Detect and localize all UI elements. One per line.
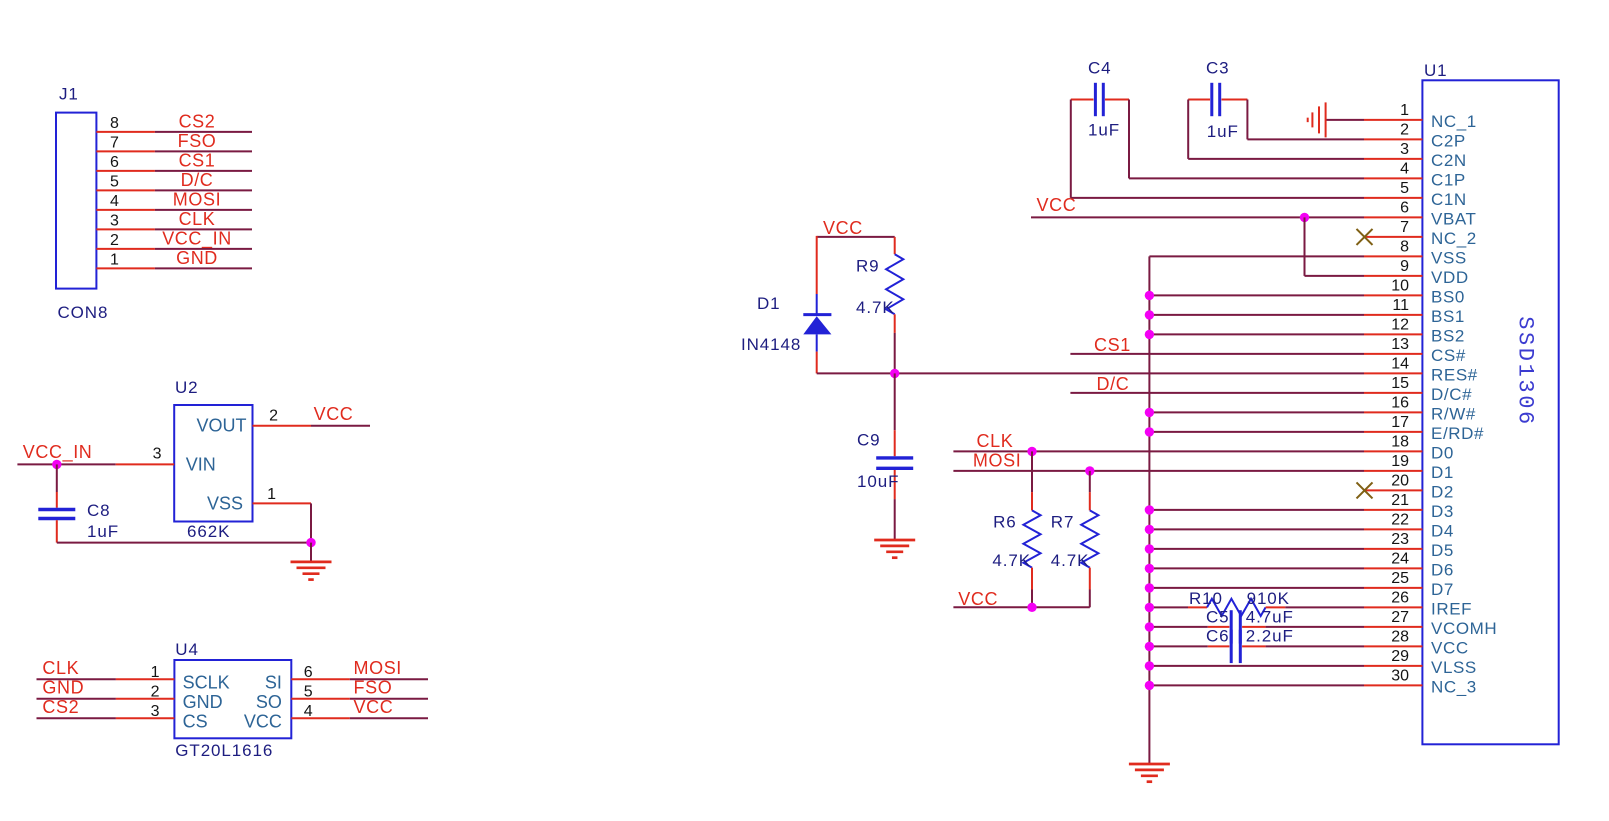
wire C4 right leg to C1P [1129,100,1364,179]
pin 28 stub [1364,645,1422,647]
svg-text:VCC: VCC [1037,195,1077,215]
svg-text:15: 15 [1391,375,1409,392]
wire bus to pin 30 [1149,684,1364,686]
capacitor C6 on VCC [1149,645,1229,647]
svg-text:C2N: C2N [1431,151,1467,170]
wire bus to pin 11 [1149,314,1364,316]
svg-text:U2: U2 [175,378,199,397]
svg-text:5: 5 [304,683,313,700]
diode D1 [803,236,831,374]
svg-text:16: 16 [1391,394,1409,411]
svg-text:BS1: BS1 [1431,307,1465,326]
svg-text:C1P: C1P [1431,170,1466,189]
svg-text:8: 8 [1400,238,1409,255]
svg-text:22: 22 [1391,511,1409,528]
wire NC_1 to earth [1326,119,1364,121]
svg-text:1: 1 [1400,102,1409,119]
svg-text:CLK: CLK [977,431,1014,451]
wire U4 pin 1 [37,678,175,680]
svg-text:2: 2 [151,683,160,700]
junction VBAT VDD [1300,213,1309,222]
svg-text:C8: C8 [87,501,111,520]
svg-text:6: 6 [1400,199,1409,216]
svg-text:J1: J1 [59,85,79,104]
wire MOSI / D1 net [953,470,1364,472]
wire CLK / D0 net [953,450,1364,452]
svg-text:7: 7 [1400,219,1409,236]
pin 23 stub [1364,548,1422,550]
svg-text:3: 3 [151,703,160,720]
svg-text:R7: R7 [1051,512,1075,531]
svg-text:BS2: BS2 [1431,326,1465,345]
wire VCC top rail [817,236,895,238]
svg-text:9: 9 [1400,258,1409,275]
svg-text:25: 25 [1391,570,1409,587]
svg-text:10uF: 10uF [857,472,899,491]
svg-text:20: 20 [1391,472,1409,489]
svg-text:IN4148: IN4148 [741,335,801,354]
wire C4 left leg to C1N [1071,100,1364,198]
wire U2 pin 1 VSS [253,503,312,542]
pin 30 stub [1364,684,1422,686]
svg-text:VOUT: VOUT [197,416,247,436]
svg-text:NC_1: NC_1 [1431,112,1477,131]
svg-text:NC_2: NC_2 [1431,229,1477,248]
svg-text:SI: SI [265,673,282,693]
pin 8 stub [1364,255,1422,257]
svg-text:GT20L1616: GT20L1616 [175,741,273,760]
svg-text:6: 6 [110,154,119,171]
wire VSS bus vertical [1148,256,1150,764]
no-connect X pin 7 [1357,229,1373,245]
svg-text:C9: C9 [857,431,881,450]
svg-text:2: 2 [1400,121,1409,138]
svg-text:VDD: VDD [1431,268,1469,287]
junction bus pin 30 [1145,681,1154,690]
junction bus VCC pin28 [1145,642,1154,651]
capacitor C4 [1071,99,1129,101]
pin 22 stub [1364,528,1422,530]
svg-text:910K: 910K [1247,589,1290,608]
wire VCC pullup rail [953,606,1089,608]
svg-text:12: 12 [1391,316,1409,333]
wire bus to pin 24 [1149,567,1364,569]
svg-text:D6: D6 [1431,560,1454,579]
svg-text:C1N: C1N [1431,190,1467,209]
pin 17 stub [1364,431,1422,433]
wire U4 pin 3 [37,717,175,719]
junction CLK R6 [1027,447,1036,456]
junction R6 VCC [1027,603,1036,612]
pin 7 stub [1364,236,1422,238]
svg-text:7: 7 [110,134,119,151]
svg-text:D1: D1 [1431,463,1454,482]
svg-text:1uF: 1uF [87,522,119,541]
svg-text:FSO: FSO [178,131,217,151]
wire CS1 net [1070,353,1364,355]
resistor R9 [894,237,896,254]
connector J1 [56,113,96,289]
svg-text:SSD1306: SSD1306 [1513,316,1538,427]
wire J1 pin 7 [96,150,252,152]
wire U2 pin 2 VOUT to VCC [253,425,371,427]
svg-text:SO: SO [256,692,282,712]
svg-text:BS0: BS0 [1431,287,1465,306]
svg-text:GND: GND [183,692,223,712]
svg-text:U1: U1 [1424,61,1448,80]
svg-text:VSS: VSS [207,494,243,514]
pin 24 stub [1364,567,1422,569]
pin 19 stub [1364,470,1422,472]
svg-text:E/RD#: E/RD# [1431,424,1484,443]
svg-text:4.7K: 4.7K [1051,551,1090,570]
svg-text:14: 14 [1391,355,1409,372]
svg-text:29: 29 [1391,648,1409,665]
svg-text:CS1: CS1 [179,150,216,170]
wire VSS pin 8 [1149,255,1364,257]
svg-text:1: 1 [267,486,276,503]
svg-text:VCC: VCC [958,589,998,609]
junction VCC_IN / C8 [52,460,61,469]
svg-text:8: 8 [110,115,119,132]
junction bus pin 21 [1145,505,1154,514]
svg-text:24: 24 [1391,550,1409,567]
svg-text:CS1: CS1 [1094,335,1131,355]
svg-text:30: 30 [1391,667,1409,684]
svg-text:18: 18 [1391,433,1409,450]
svg-text:27: 27 [1391,609,1409,626]
junction U2 VSS ground [306,538,315,547]
pin 9 stub [1364,275,1422,277]
wire J1 pin 1 [96,267,252,269]
junction MOSI R7 [1085,466,1094,475]
pin 18 stub [1364,450,1422,452]
svg-text:4: 4 [110,193,119,210]
pin 26 stub [1364,606,1422,608]
wire J1 pin 3 [96,228,252,230]
pin 16 stub [1364,411,1422,413]
svg-text:VCOMH: VCOMH [1431,619,1497,638]
svg-text:D5: D5 [1431,541,1454,560]
svg-text:D/C: D/C [1097,374,1130,394]
pin 4 stub [1364,177,1422,179]
pin 25 stub [1364,587,1422,589]
earth ground NC_1 [1308,102,1326,137]
svg-text:17: 17 [1391,414,1409,431]
svg-text:SCLK: SCLK [183,673,230,693]
svg-text:R9: R9 [856,257,880,276]
wire to ground [310,543,312,562]
wire VDD tap [1305,217,1365,276]
pin 20 stub [1364,489,1422,491]
junction bus pin 12 [1145,330,1154,339]
wire VCC to VBAT [1031,216,1364,218]
wire J1 pin 2 [96,248,252,250]
svg-text:23: 23 [1391,531,1409,548]
pin 12 stub [1364,333,1422,335]
junction bus pin 24 [1145,564,1154,573]
svg-text:5: 5 [1400,180,1409,197]
pin 27 stub [1364,626,1422,628]
svg-text:D1: D1 [757,294,781,313]
junction bus pin 11 [1145,310,1154,319]
svg-text:U4: U4 [175,640,199,659]
capacitor C5 on VCOMH [1149,626,1229,628]
svg-text:4.7K: 4.7K [992,551,1031,570]
svg-text:3: 3 [1400,141,1409,158]
pin 3 stub [1364,158,1422,160]
svg-text:VBAT: VBAT [1431,209,1477,228]
svg-text:3: 3 [153,446,162,463]
junction bus VCOMH [1145,622,1154,631]
svg-text:D/C: D/C [181,170,214,190]
pin 10 stub [1364,294,1422,296]
svg-text:5: 5 [110,173,119,190]
junction D1/R9/C9/RES# [890,369,899,378]
svg-text:28: 28 [1391,628,1409,645]
wire D/C net [1070,392,1364,394]
svg-text:MOSI: MOSI [973,451,1021,471]
pin 29 stub [1364,665,1422,667]
wire bus to pin 21 [1149,509,1364,511]
pin 2 stub [1364,138,1422,140]
svg-text:GND: GND [42,678,84,698]
svg-text:10: 10 [1391,277,1409,294]
wire bus to pin 29 [1149,665,1364,667]
capacitor C9 [894,373,896,456]
svg-text:CLK: CLK [179,209,216,229]
svg-text:1: 1 [110,251,119,268]
svg-text:D4: D4 [1431,521,1454,540]
junction bus pin 22 [1145,525,1154,534]
svg-text:VCC: VCC [823,218,863,238]
junction bus pin 29 [1145,661,1154,670]
svg-text:13: 13 [1391,336,1409,353]
wire RES# net [817,372,1364,374]
pin 6 stub [1364,216,1422,218]
pin 15 stub [1364,392,1422,394]
junction bus pin 10 [1145,291,1154,300]
svg-text:VCC: VCC [1431,638,1469,657]
pin 5 stub [1364,197,1422,199]
svg-text:CS2: CS2 [179,111,216,131]
svg-text:CS#: CS# [1431,346,1466,365]
resistor R10 on IREF [1149,606,1207,608]
pin 21 stub [1364,509,1422,511]
svg-text:D3: D3 [1431,502,1454,521]
svg-text:D2: D2 [1431,482,1454,501]
svg-text:IREF: IREF [1431,599,1472,618]
ground U2/C8 [291,562,332,580]
IC U4 [174,660,291,738]
svg-text:FSO: FSO [354,678,393,698]
junction bus pin 16 [1145,408,1154,417]
junction bus IREF [1145,603,1154,612]
no-connect X pin 20 [1357,482,1373,498]
svg-text:2.2uF: 2.2uF [1246,627,1294,646]
svg-text:C3: C3 [1206,59,1230,78]
svg-text:VCC: VCC [244,712,282,732]
IC U1 SSD1306 [1422,80,1558,744]
wire U2 pin 3 VIN from VCC_IN [17,463,174,465]
svg-text:VLSS: VLSS [1431,658,1477,677]
svg-text:VSS: VSS [1431,248,1467,267]
svg-text:D0: D0 [1431,443,1454,462]
wire bus to pin 12 [1149,333,1364,335]
svg-text:1uF: 1uF [1088,121,1120,140]
svg-text:11: 11 [1392,297,1409,314]
svg-text:MOSI: MOSI [173,189,221,209]
svg-text:CS2: CS2 [42,697,79,717]
svg-text:4: 4 [304,703,313,720]
svg-text:MOSI: MOSI [354,658,402,678]
svg-text:26: 26 [1391,589,1409,606]
wire U4 pin 5 [291,698,428,700]
svg-text:R10: R10 [1189,589,1223,608]
svg-text:1uF: 1uF [1207,122,1239,141]
wire J1 pin 4 [96,209,252,211]
svg-text:D7: D7 [1431,580,1454,599]
svg-text:4.7uF: 4.7uF [1246,608,1294,627]
junction bus pin 25 [1145,583,1154,592]
svg-text:19: 19 [1391,453,1409,470]
svg-text:662K: 662K [187,522,230,541]
svg-text:D/C#: D/C# [1431,385,1472,404]
pin 1 stub [1364,119,1422,121]
wire J1 pin 5 [96,189,252,191]
svg-text:C5: C5 [1206,608,1230,627]
svg-text:1: 1 [151,664,160,681]
wire bus to pin 10 [1149,294,1364,296]
wire C3 left leg to C2N [1188,100,1364,159]
wire U4 pin 4 [291,717,428,719]
svg-text:C4: C4 [1088,59,1112,78]
wire bus to pin 16 [1149,411,1364,413]
wire bus to pin 25 [1149,587,1364,589]
svg-text:21: 21 [1391,492,1409,509]
svg-text:CLK: CLK [42,658,79,678]
wire J1 pin 6 [96,170,252,172]
svg-text:VCC: VCC [314,404,354,424]
wire C3 right leg to C2P [1247,100,1364,140]
svg-text:C2P: C2P [1431,131,1466,150]
svg-text:4: 4 [1400,160,1409,177]
resistor R7 [1089,471,1091,511]
svg-text:2: 2 [110,232,119,249]
ground VSS bus [1129,764,1170,782]
resistor R6 [1031,451,1033,510]
ground C9 [874,540,915,558]
junction bus pin 23 [1145,544,1154,553]
svg-text:R/W#: R/W# [1431,404,1476,423]
svg-text:VIN: VIN [186,455,216,475]
svg-text:CON8: CON8 [58,303,109,322]
wire bus to pin 23 [1149,548,1364,550]
wire J1 pin 8 [96,131,252,133]
pin 11 stub [1364,314,1422,316]
pin 14 stub [1364,372,1422,374]
svg-text:VCC_IN: VCC_IN [162,228,232,249]
svg-text:6: 6 [304,664,313,681]
wire U4 pin 2 [37,698,175,700]
svg-text:NC_3: NC_3 [1431,677,1477,696]
svg-text:GND: GND [176,248,218,268]
capacitor C3 [1188,99,1247,101]
svg-text:CS: CS [183,712,208,732]
junction bus pin 17 [1145,427,1154,436]
wire U4 pin 6 [291,678,428,680]
svg-text:R6: R6 [993,512,1017,531]
regulator U2 [174,405,252,522]
wire bus to pin 17 [1149,431,1364,433]
svg-text:3: 3 [110,212,119,229]
svg-text:VCC: VCC [354,697,394,717]
wire C8 to U2 VSS ground [57,542,311,544]
svg-text:2: 2 [269,408,278,425]
svg-text:C6: C6 [1206,627,1230,646]
wire bus to pin 22 [1149,528,1364,530]
svg-text:4.7K: 4.7K [856,298,895,317]
svg-text:RES#: RES# [1431,365,1478,384]
capacitor C8 [56,464,58,507]
pin 13 stub [1364,353,1422,355]
